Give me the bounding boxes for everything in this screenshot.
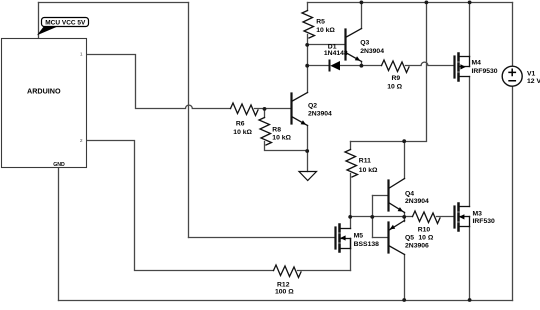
svg-text:V1: V1 [527,71,536,78]
svg-text:R9: R9 [392,75,401,82]
svg-text:Q2: Q2 [308,103,317,110]
svg-text:2: 2 [80,138,83,144]
svg-text:Q5: Q5 [405,235,414,242]
svg-text:2N3904: 2N3904 [405,198,429,205]
svg-text:10 kΩ: 10 kΩ [316,27,335,34]
svg-text:GND: GND [53,162,65,168]
svg-text:M3: M3 [473,211,483,218]
svg-text:2N3904: 2N3904 [360,48,384,55]
svg-text:ARDUINO: ARDUINO [27,87,61,96]
svg-text:R8: R8 [272,127,281,134]
svg-text:1: 1 [80,52,83,58]
svg-text:MCU VCC 5V: MCU VCC 5V [45,19,86,26]
svg-text:IRF9530: IRF9530 [472,68,498,75]
svg-text:R6: R6 [236,121,245,128]
svg-text:10 kΩ: 10 kΩ [359,167,378,174]
svg-text:2N3906: 2N3906 [405,243,429,250]
svg-text:Q4: Q4 [405,191,414,198]
svg-text:BSS138: BSS138 [354,241,380,248]
svg-text:10 Ω: 10 Ω [387,84,402,91]
svg-text:R5: R5 [316,19,325,26]
svg-text:Q3: Q3 [360,40,369,47]
svg-text:IRF530: IRF530 [473,218,496,225]
svg-text:R12: R12 [277,282,290,289]
svg-text:10 kΩ: 10 kΩ [233,129,252,136]
svg-text:R10: R10 [418,227,431,234]
svg-text:M4: M4 [472,60,482,67]
svg-text:10 Ω: 10 Ω [418,235,433,242]
svg-text:10 kΩ: 10 kΩ [272,135,291,142]
svg-text:1N4148: 1N4148 [324,50,348,57]
svg-text:R11: R11 [359,158,371,165]
svg-text:12 V: 12 V [527,78,540,85]
svg-text:100 Ω: 100 Ω [275,289,294,296]
svg-text:M5: M5 [354,233,364,240]
svg-text:2N3904: 2N3904 [308,111,332,118]
